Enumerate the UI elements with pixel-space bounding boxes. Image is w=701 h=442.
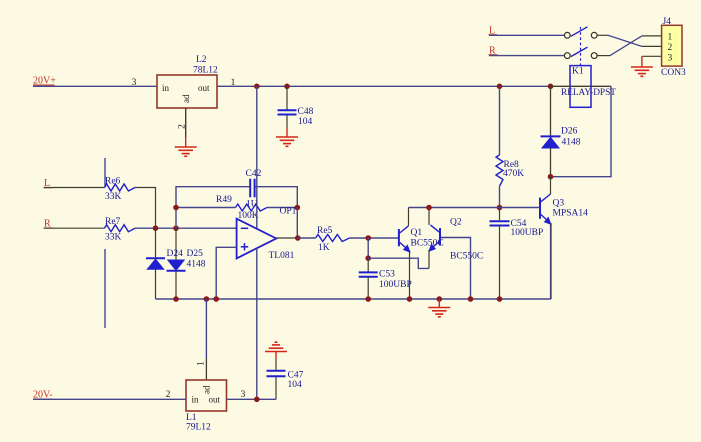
junction op-amp V+ on rail bbox=[254, 84, 260, 90]
svg-text:OP1: OP1 bbox=[280, 207, 297, 217]
capacitor C42 1U bbox=[246, 169, 262, 210]
switch contact SW-R bbox=[564, 47, 597, 58]
wire L to Re6 bbox=[44, 187, 104, 189]
pin 2 lead of L2 bbox=[185, 108, 187, 137]
ground below C48 bbox=[276, 129, 298, 147]
svg-text:79L12: 79L12 bbox=[186, 423, 211, 433]
capacitor C53 100UBP bbox=[359, 258, 412, 299]
relay actuation dashed link bbox=[580, 27, 582, 66]
ground at J4 pin 3 bbox=[631, 56, 653, 76]
junction Re8-C54-Q3 base bbox=[497, 205, 503, 211]
stub wire lower left bbox=[104, 249, 106, 328]
wire Re5 to Q1 base bbox=[349, 237, 398, 239]
svg-text:K1: K1 bbox=[572, 67, 584, 77]
regulator L1 79L12 bbox=[186, 380, 227, 433]
wire switch R to crossover bbox=[597, 55, 610, 57]
junction R49 right bbox=[295, 205, 301, 211]
svg-text:C47: C47 bbox=[288, 371, 304, 381]
port R (input) bbox=[44, 218, 54, 229]
transistor Q2 BC550C bbox=[429, 208, 483, 269]
wire Q2 base to ground rail bbox=[441, 238, 471, 300]
wire relay right side down bbox=[551, 86, 612, 176]
op-amp U1 TL081 bbox=[237, 219, 295, 261]
svg-text:1: 1 bbox=[197, 361, 207, 366]
junction C48 on rail bbox=[284, 84, 290, 90]
svg-text:78L12: 78L12 bbox=[193, 66, 218, 76]
junction C53 top bbox=[365, 255, 371, 261]
wire rail to L1 pin 1 bbox=[205, 299, 207, 358]
pin 1 lead of L1 bbox=[205, 358, 207, 380]
svg-text:104: 104 bbox=[288, 380, 303, 390]
transistor Q3 MPSA14 bbox=[540, 177, 588, 299]
svg-text:out: out bbox=[198, 83, 210, 93]
svg-text:out: out bbox=[209, 395, 221, 405]
svg-text:Q3: Q3 bbox=[553, 199, 565, 209]
op-amp output pin bbox=[276, 237, 298, 239]
capacitor C48 104 bbox=[278, 86, 314, 128]
svg-text:TL081: TL081 bbox=[269, 251, 295, 261]
svg-text:3: 3 bbox=[241, 390, 246, 400]
svg-text:Re6: Re6 bbox=[105, 177, 121, 187]
diode D24 4148 bbox=[146, 228, 165, 299]
port 20V- bbox=[33, 390, 53, 401]
port 20V+ bbox=[33, 76, 56, 87]
svg-text:C48: C48 bbox=[298, 107, 314, 117]
junction D26-relay on rail bbox=[548, 84, 554, 90]
junction op-amp + on rail bbox=[213, 296, 219, 302]
regulator L2 78L12 bbox=[157, 55, 218, 108]
wire Re6 down to summing node bbox=[135, 188, 156, 229]
svg-text:33K: 33K bbox=[105, 192, 122, 202]
wire L2 out along +12V rail to relay bbox=[217, 85, 551, 87]
wire feedback down to output bbox=[296, 208, 298, 239]
ground symbol on rail bbox=[428, 299, 450, 317]
crossover wire R to J4 pin 1 bbox=[610, 36, 642, 56]
junction C53 on rail bbox=[365, 296, 371, 302]
svg-text:104: 104 bbox=[298, 117, 313, 127]
svg-text:Q1: Q1 bbox=[411, 228, 423, 238]
junction Q2 collector bbox=[426, 205, 432, 211]
wire Q3 base bbox=[500, 207, 541, 209]
svg-text:470K: 470K bbox=[503, 169, 524, 179]
wire 20V- to L1 pin 2 bbox=[33, 398, 186, 400]
svg-text:L1: L1 bbox=[186, 413, 197, 423]
junction ground symbol on rail bbox=[437, 296, 443, 302]
wire junction down to C53 bbox=[367, 238, 369, 258]
svg-text:BC550C: BC550C bbox=[411, 238, 444, 248]
junction V- rail bbox=[254, 397, 260, 403]
junction Q2 base on rail bbox=[468, 296, 474, 302]
junction D25 on rail bbox=[173, 296, 179, 302]
resistor Re7 33K bbox=[104, 217, 135, 242]
junction Re8 on rail bbox=[497, 84, 503, 90]
svg-text:Q2: Q2 bbox=[450, 218, 462, 228]
svg-text:BC550C: BC550C bbox=[450, 252, 483, 262]
relay K1 RELAY-DPST bbox=[561, 66, 616, 108]
wire C53 node to Q2 emitter jog bbox=[368, 258, 429, 268]
diode D25 4148 bbox=[167, 228, 206, 299]
ground above C47 (inverted) bbox=[265, 342, 287, 358]
svg-text:3: 3 bbox=[132, 78, 137, 88]
svg-text:CON3: CON3 bbox=[661, 68, 686, 78]
svg-text:C42: C42 bbox=[246, 169, 262, 179]
crossover wire L to J4 pin 2 bbox=[608, 35, 642, 46]
svg-text:L2: L2 bbox=[196, 55, 207, 65]
junction op-amp output bbox=[295, 235, 301, 241]
svg-text:33K: 33K bbox=[105, 232, 122, 242]
capacitor C47 104 bbox=[267, 359, 304, 400]
svg-text:RELAY-DPST: RELAY-DPST bbox=[561, 88, 616, 98]
junction L1 pin1 on rail bbox=[204, 296, 210, 302]
wire feedback top left bbox=[176, 187, 249, 229]
junction Re6-Re7 summing bbox=[153, 225, 159, 231]
resistor Re5 1K bbox=[316, 226, 350, 253]
capacitor C54 100UBP bbox=[490, 208, 544, 300]
svg-text:100K: 100K bbox=[238, 211, 259, 221]
svg-text:in: in bbox=[162, 83, 170, 93]
svg-text:100UBP: 100UBP bbox=[511, 228, 544, 238]
junction D25 line on summing wire bbox=[173, 225, 179, 231]
wire switch L to crossover bbox=[597, 34, 608, 36]
wire op-amp V- supply bbox=[256, 248, 258, 399]
wire op-amp non-inverting input to ground rail bbox=[216, 247, 236, 299]
resistor R49 100K bbox=[216, 195, 267, 221]
svg-text:C53: C53 bbox=[379, 270, 395, 280]
svg-text:4148: 4148 bbox=[187, 260, 206, 270]
wire L to switch bbox=[489, 34, 564, 36]
wire L1 out to C47 bbox=[227, 398, 277, 400]
wire output to Re5 bbox=[298, 237, 316, 239]
svg-text:ad: ad bbox=[181, 94, 191, 103]
diode D26 4148 bbox=[541, 86, 581, 176]
junction Q1 emitter on rail bbox=[407, 296, 413, 302]
svg-text:Re5: Re5 bbox=[317, 226, 333, 236]
wire R49 row left bbox=[176, 207, 236, 209]
svg-text:4148: 4148 bbox=[562, 138, 581, 148]
svg-text:100UBP: 100UBP bbox=[379, 280, 412, 290]
junction R49 left bbox=[173, 205, 179, 211]
junction Re5-C53 bbox=[365, 235, 371, 241]
svg-text:J4: J4 bbox=[663, 17, 672, 27]
port R (top) bbox=[489, 45, 498, 56]
svg-text:1: 1 bbox=[668, 33, 673, 43]
junction D26-Q3 collector bbox=[548, 174, 554, 180]
wire op-amp V+ supply bbox=[256, 86, 258, 229]
svg-text:in: in bbox=[192, 395, 200, 405]
connector J4 CON3 bbox=[661, 17, 686, 78]
junction C54 on rail bbox=[497, 296, 503, 302]
pin stubs of J4 bbox=[642, 36, 662, 56]
svg-text:1K: 1K bbox=[318, 243, 330, 253]
svg-text:R49: R49 bbox=[216, 195, 232, 205]
svg-text:MPSA14: MPSA14 bbox=[553, 209, 589, 219]
wire feedback top right bbox=[256, 187, 298, 208]
svg-text:D25: D25 bbox=[187, 249, 204, 259]
wire Re7 to op-amp inverting input bbox=[135, 227, 237, 229]
switch contact SW-L bbox=[564, 27, 597, 38]
wire R to Re7 bbox=[44, 227, 104, 229]
wire Q3 emitter to rail bbox=[550, 223, 552, 299]
svg-text:2: 2 bbox=[166, 390, 171, 400]
wire R49 row right bbox=[267, 207, 297, 209]
wire Q1-Q2 collectors to Q3 base node bbox=[409, 207, 500, 209]
resistor Re8 470K bbox=[496, 86, 524, 207]
relay pins wire through K1 coil bbox=[551, 85, 612, 87]
stub wire above Re6 bbox=[104, 158, 106, 188]
svg-text:ad: ad bbox=[202, 385, 212, 394]
svg-text:2: 2 bbox=[668, 43, 673, 53]
svg-text:Re7: Re7 bbox=[105, 217, 121, 227]
wire 20V+ to L2 pin 3 bbox=[33, 85, 157, 87]
wire R to switch bbox=[489, 55, 564, 57]
transistor Q1 BC550C bbox=[399, 208, 444, 300]
port L (input) bbox=[44, 178, 53, 189]
ground at L2 pin 2 bbox=[175, 137, 197, 156]
resistor Re6 33K bbox=[104, 177, 135, 202]
svg-text:3: 3 bbox=[668, 53, 673, 63]
svg-text:D24: D24 bbox=[167, 249, 184, 259]
wire ground rail bbox=[156, 298, 552, 300]
port L (top) bbox=[489, 25, 498, 36]
svg-text:D26: D26 bbox=[561, 127, 578, 137]
